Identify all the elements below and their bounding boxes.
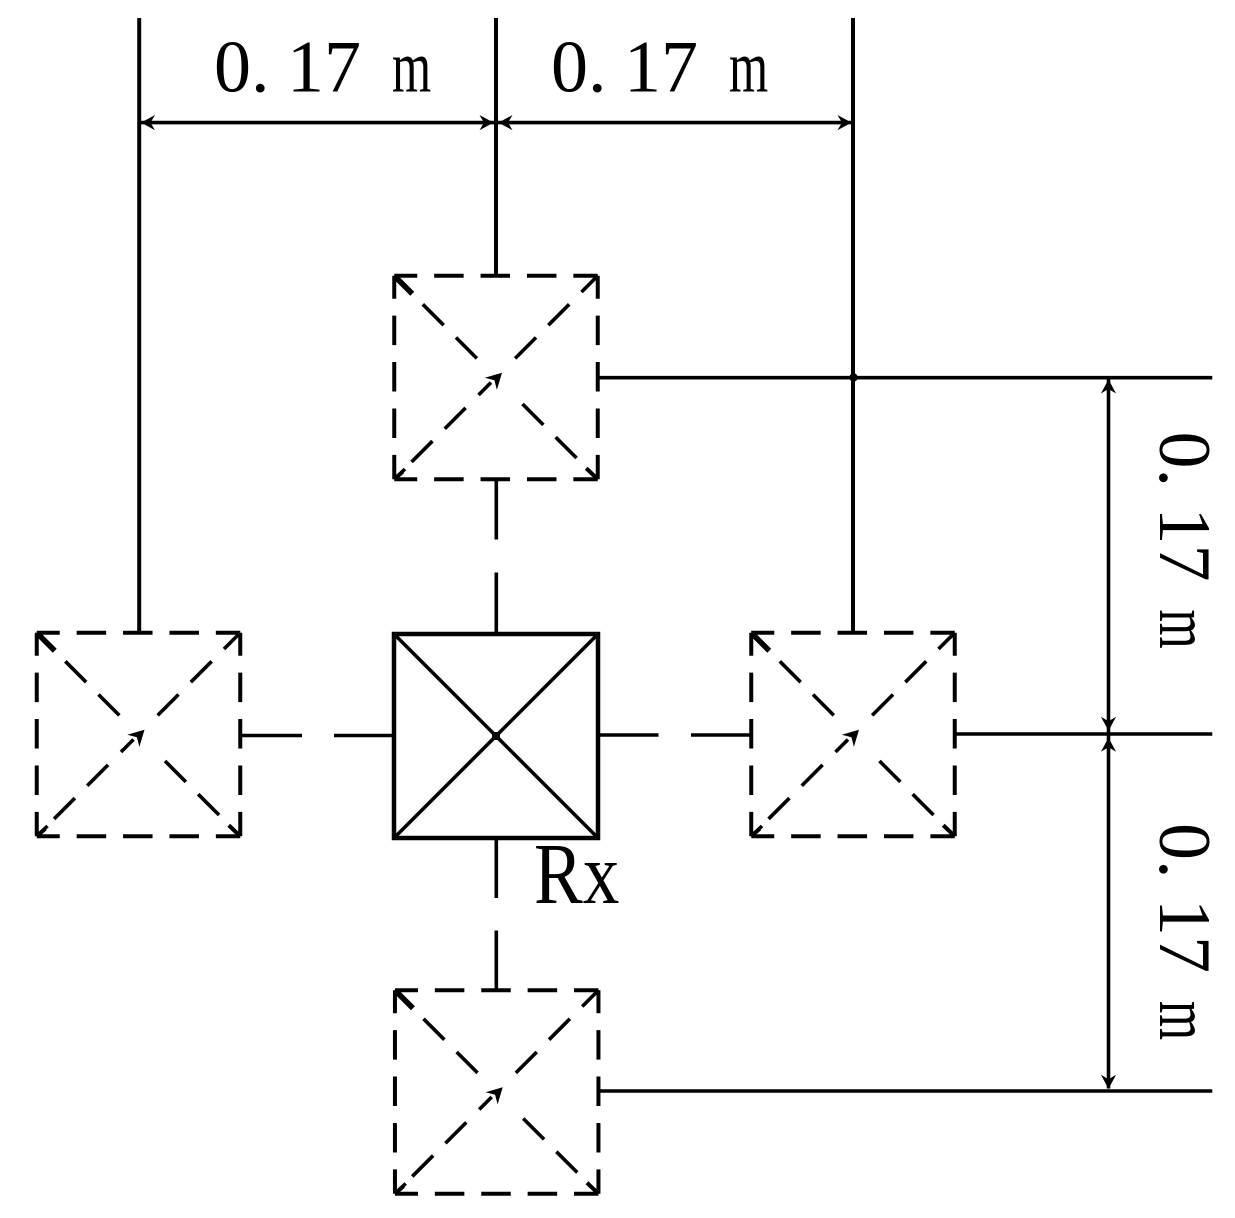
svg-text:m: m (1144, 1001, 1226, 1040)
svg-text:17: 17 (287, 27, 361, 109)
svg-text:0.: 0. (214, 27, 270, 109)
svg-text:17: 17 (624, 27, 698, 109)
svg-text:0.: 0. (1143, 823, 1225, 879)
svg-text:0.: 0. (1143, 432, 1225, 488)
svg-text:m: m (1144, 610, 1226, 649)
svg-text:17: 17 (1143, 508, 1225, 582)
svg-text:m: m (729, 26, 768, 108)
svg-text:m: m (392, 26, 431, 108)
svg-text:Rx: Rx (534, 826, 619, 922)
svg-text:0.: 0. (551, 27, 607, 109)
svg-text:17: 17 (1143, 899, 1225, 973)
